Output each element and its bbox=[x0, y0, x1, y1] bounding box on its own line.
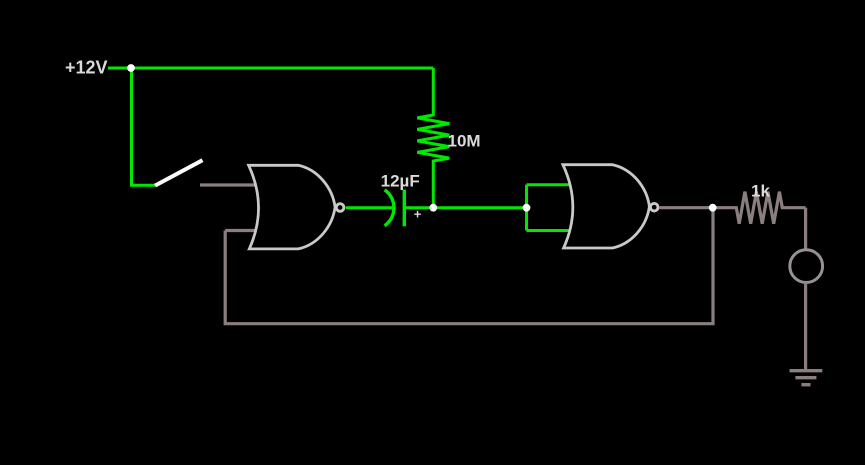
NOR gate U2 body bbox=[563, 165, 650, 248]
wire: gate2 tied inputs branch bbox=[527, 183, 571, 186]
node B junction dot bbox=[429, 204, 437, 212]
wire: node B to node C bbox=[433, 206, 526, 209]
wire: capacitor to node B bbox=[404, 206, 433, 209]
resistor R1 10M vertical bbox=[417, 68, 449, 208]
capacitor C1 curved plate bbox=[385, 190, 394, 226]
wire: switch to gate1 input A bbox=[200, 183, 256, 186]
wire: source to ground bbox=[804, 283, 807, 372]
node A: +12V junction bbox=[127, 64, 135, 72]
svg-text:+12V: +12V bbox=[65, 57, 108, 77]
NOR gate U1 body bbox=[249, 165, 336, 249]
wire: feedback from output node to gate1 input B bbox=[225, 208, 713, 324]
capacitor C1 straight plate bbox=[403, 190, 406, 227]
wire: gate2 output to node D bbox=[659, 206, 713, 209]
source/ammeter circle bbox=[790, 250, 823, 283]
switch S1 lever (open) bbox=[155, 160, 203, 185]
node D junction dot bbox=[709, 204, 717, 212]
wire: +12V rail top horizontal bbox=[108, 67, 433, 70]
wire: gate1 output to capacitor bbox=[346, 206, 393, 209]
NOR gate U2 output bubble bbox=[650, 203, 658, 211]
node C junction dot bbox=[523, 204, 531, 212]
resistor R2 1k horizontal bbox=[713, 192, 806, 224]
ground symbol bbox=[790, 369, 823, 372]
svg-text:1k: 1k bbox=[751, 181, 770, 200]
svg-text:12µF: 12µF bbox=[381, 172, 420, 191]
svg-text:10M: 10M bbox=[448, 132, 481, 151]
wire: resistor to source bbox=[804, 208, 807, 250]
wire: gate1 input B stub bbox=[225, 229, 256, 232]
NOR gate U1 output bubble bbox=[336, 204, 344, 212]
wire: +12V down to switch bbox=[132, 68, 156, 185]
